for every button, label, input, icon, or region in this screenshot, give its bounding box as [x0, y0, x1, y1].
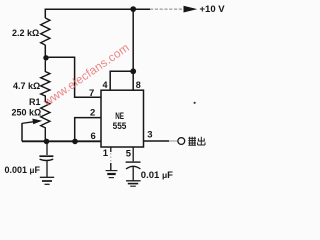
resistor 4.7 kOhm: [41, 61, 50, 102]
svg-text:5: 5: [126, 148, 132, 159]
wire wiper return to bottom rail: [21, 123, 23, 141]
node junction dot at C1: [44, 139, 50, 145]
svg-text:6: 6: [91, 131, 96, 142]
R1 wiper arrow: [22, 122, 33, 124]
output terminal circle: [178, 138, 185, 145]
node dot top rail at pin8 column: [130, 6, 136, 12]
svg-text:1: 1: [103, 148, 109, 159]
capacitor C1 0.001uF lead: [46, 141, 48, 155]
svg-text:7: 7: [89, 88, 94, 99]
pin 4 wire: [110, 71, 133, 90]
output label (Chinese): [188, 137, 205, 146]
capacitor C1 top plate: [39, 155, 53, 157]
svg-text:555: 555: [113, 121, 127, 132]
svg-text:250 kΩ: 250 kΩ: [12, 108, 42, 118]
wire resistor to node A: [44, 45, 46, 57]
wire C1 to ground: [46, 161, 48, 177]
wire top rail thin segment to arrow: [150, 8, 184, 10]
node A junction dot: [43, 55, 48, 60]
pin 1 wire: [110, 147, 112, 152]
wire top rail: [45, 9, 150, 18]
svg-text:3: 3: [147, 129, 152, 140]
+10V supply arrow: [184, 6, 198, 13]
pin 3 wire output: [144, 140, 170, 142]
stray speck: [194, 102, 196, 104]
svg-text:4.7 kΩ: 4.7 kΩ: [13, 81, 40, 91]
op-amp timer IC U1 NE555 box: [101, 90, 144, 147]
pin 8 wire from top rail: [132, 9, 134, 90]
wire pin2 branch: [75, 118, 101, 142]
resistor 2.2 kOhm: [41, 18, 50, 45]
node junction dot at pin2 branch: [72, 139, 78, 145]
ground below pin 1: [106, 170, 118, 172]
wire C2 to ground: [132, 167, 134, 181]
node dot pin4/pin8 junction: [130, 68, 136, 74]
svg-text:2.2 kΩ: 2.2 kΩ: [12, 28, 39, 38]
svg-text:+10 V: +10 V: [200, 4, 226, 15]
potentiometer R1 250 kOhm: [41, 102, 50, 142]
svg-text:8: 8: [136, 80, 141, 90]
ground below C2: [126, 180, 141, 182]
svg-text:4: 4: [103, 80, 108, 90]
capacitor C2 bottom plate: [126, 166, 140, 169]
svg-text:0.01 μF: 0.01 μF: [141, 170, 173, 181]
wire node A to pin7 branch: [46, 57, 101, 97]
ground below C1: [40, 176, 54, 178]
svg-text:2: 2: [90, 108, 95, 119]
svg-text:R1: R1: [29, 97, 41, 107]
svg-text:0.001 μF: 0.001 μF: [5, 165, 41, 175]
capacitor C2 0.01uF top plate: [126, 161, 141, 163]
wire bottom rail to pin6: [22, 140, 101, 142]
pin 5 wire: [132, 147, 134, 161]
capacitor C1 bottom plate: [40, 159, 54, 160]
